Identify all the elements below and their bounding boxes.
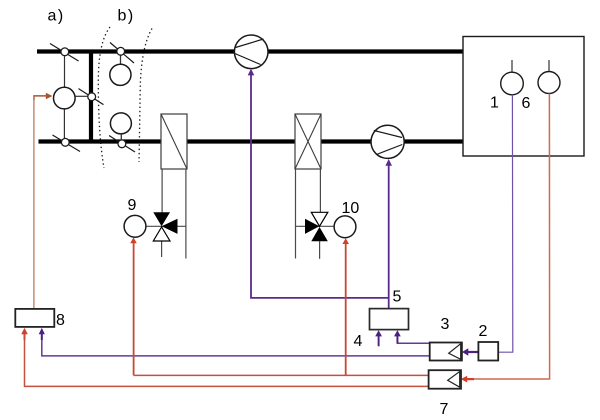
sensor circle (mixing sensor a) xyxy=(54,56,89,140)
converter box 7 xyxy=(429,370,461,389)
svg-text:6: 6 xyxy=(522,95,531,112)
wire: thick bypass bar xyxy=(89,50,93,144)
pump P2 on bottom pipe xyxy=(371,125,404,158)
svg-text:10: 10 xyxy=(342,200,360,217)
svg-text:4: 4 xyxy=(354,333,363,350)
wire: purple box3 to box5 xyxy=(394,330,430,343)
wire: brown signal from sensor a to controller 8 xyxy=(34,93,53,309)
wire: HX2 left leg xyxy=(295,169,297,259)
wire: red arrow to actuator 9 xyxy=(130,237,137,375)
three-way valve at 9 xyxy=(153,212,177,241)
wire: HX1 right leg xyxy=(185,169,187,259)
wire: valve9 horizontal run xyxy=(146,225,186,227)
node on bottom pipe section b xyxy=(109,136,135,153)
svg-text:1: 1 xyxy=(490,95,499,112)
sensor circle b lower xyxy=(110,113,131,144)
box 2 xyxy=(478,342,498,361)
dotted boundary arc right of zone b xyxy=(139,29,152,163)
wire: red run to box7 left upper xyxy=(134,374,429,376)
wire: red from sensor 6 to box7 right xyxy=(461,94,550,383)
wire: purple external setpoint arrow 4 xyxy=(375,330,382,346)
heat exchanger HX2 xyxy=(295,114,321,169)
wire: purple arrow box2 to box3 xyxy=(462,348,478,355)
svg-text:3: 3 xyxy=(441,316,450,333)
node on top pipe section a xyxy=(50,44,79,62)
node on top pipe section b xyxy=(110,43,134,64)
heat exchanger HX1 xyxy=(161,114,187,169)
svg-text:8: 8 xyxy=(56,312,65,329)
node on bottom pipe section a xyxy=(53,135,81,152)
wire: purple pump P2 signal xyxy=(385,159,392,309)
wire: valve10 lower stub xyxy=(319,241,321,259)
actuator circle 9 xyxy=(124,215,146,237)
wire: purple from sensor 1 to box 2 xyxy=(498,95,512,353)
sensor circle b upper xyxy=(110,56,131,86)
dotted boundary arc left of zone b xyxy=(98,27,110,168)
wire: bottom pipe xyxy=(39,139,464,143)
wire: valve9 lower stub xyxy=(161,241,163,257)
wire: purple box3 to controller 8 xyxy=(39,328,430,356)
wire: HX1 left leg xyxy=(161,169,163,213)
controller box 8 xyxy=(15,309,54,327)
svg-text:5: 5 xyxy=(393,289,402,306)
svg-text:9: 9 xyxy=(128,197,137,214)
wire: HX2 right leg xyxy=(319,169,321,213)
wire: red from controller 8 to box7 left lower xyxy=(21,328,428,387)
converter box 3 xyxy=(430,343,462,361)
sensor circle 1 in boiler box xyxy=(501,60,524,95)
wire: purple pump P1 signal xyxy=(248,69,389,298)
pump P1 on top pipe xyxy=(234,35,268,69)
node on bypass bar xyxy=(79,89,104,105)
svg-text:b): b) xyxy=(118,7,135,24)
svg-text:2: 2 xyxy=(479,323,488,340)
box 5 xyxy=(370,309,409,330)
svg-text:7: 7 xyxy=(440,401,449,415)
boiler box (right unit) xyxy=(463,37,584,157)
sensor circle 6 in boiler box xyxy=(538,60,560,94)
wire: red arrow to actuator 10 xyxy=(342,238,349,375)
three-way valve at 10 xyxy=(305,212,328,241)
actuator circle 10 xyxy=(334,216,356,238)
wire: valve10 horizontal run xyxy=(295,225,334,227)
wire: top pipe xyxy=(37,49,463,53)
svg-text:a): a) xyxy=(48,7,65,24)
